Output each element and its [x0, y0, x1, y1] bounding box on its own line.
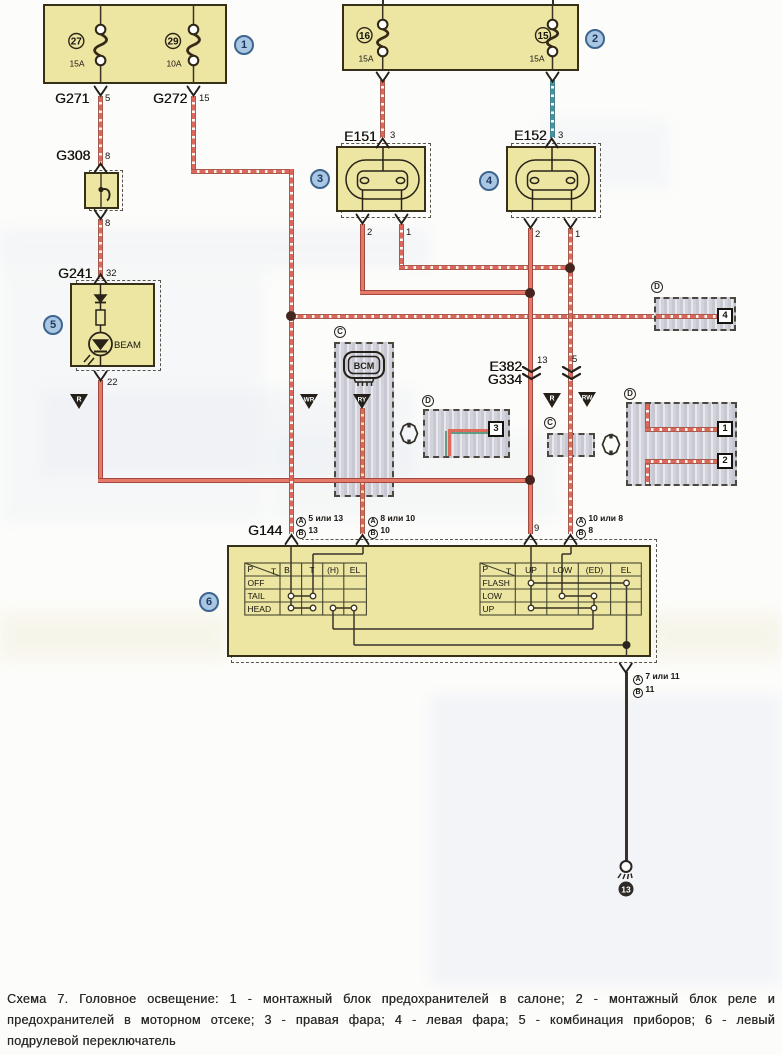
svg-text:13: 13 [621, 885, 631, 895]
